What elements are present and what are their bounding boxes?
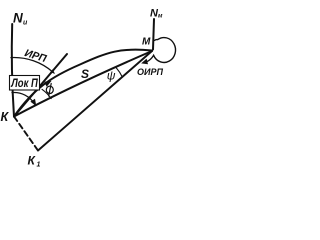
OIRP circular arrow around M <box>147 38 176 63</box>
svg-text:S: S <box>81 67 89 81</box>
IRP bearing arc from meridian to ray <box>11 58 53 73</box>
phi symbol (loop + stem) <box>46 86 53 93</box>
IRP arc arrowhead <box>50 69 55 74</box>
phi angle arc at K <box>42 89 51 98</box>
loxodrome line K to M <box>14 51 152 117</box>
svg-text:N: N <box>13 11 23 26</box>
meridian at K (N_i) <box>12 24 14 117</box>
svg-text:и: и <box>23 20 28 27</box>
svg-text:К: К <box>1 110 10 124</box>
psi angle arc near M <box>116 68 122 77</box>
lok P bearing arc from meridian to loxodrome <box>12 93 35 105</box>
tangent ray at K (orthodrome initial direction) <box>14 54 67 117</box>
line M to K1 (plotted reverse bearing) <box>38 51 152 151</box>
svg-text:1: 1 <box>37 162 41 169</box>
svg-text:м: м <box>158 14 163 20</box>
Lok P box <box>10 76 40 91</box>
OIRP arrowhead <box>141 59 148 65</box>
lok P arc arrowhead <box>30 99 36 106</box>
svg-text:Лок П: Лок П <box>11 76 39 90</box>
meridian at M (N_m) <box>153 19 154 50</box>
svg-text:М: М <box>142 37 151 48</box>
svg-text:ОИРП: ОИРП <box>137 67 163 77</box>
dashed line K to K1 <box>14 117 38 151</box>
arrowhead on S curve <box>44 81 52 87</box>
svg-text:ψ: ψ <box>107 69 116 83</box>
orthodrome S curve from K to M <box>14 50 152 117</box>
